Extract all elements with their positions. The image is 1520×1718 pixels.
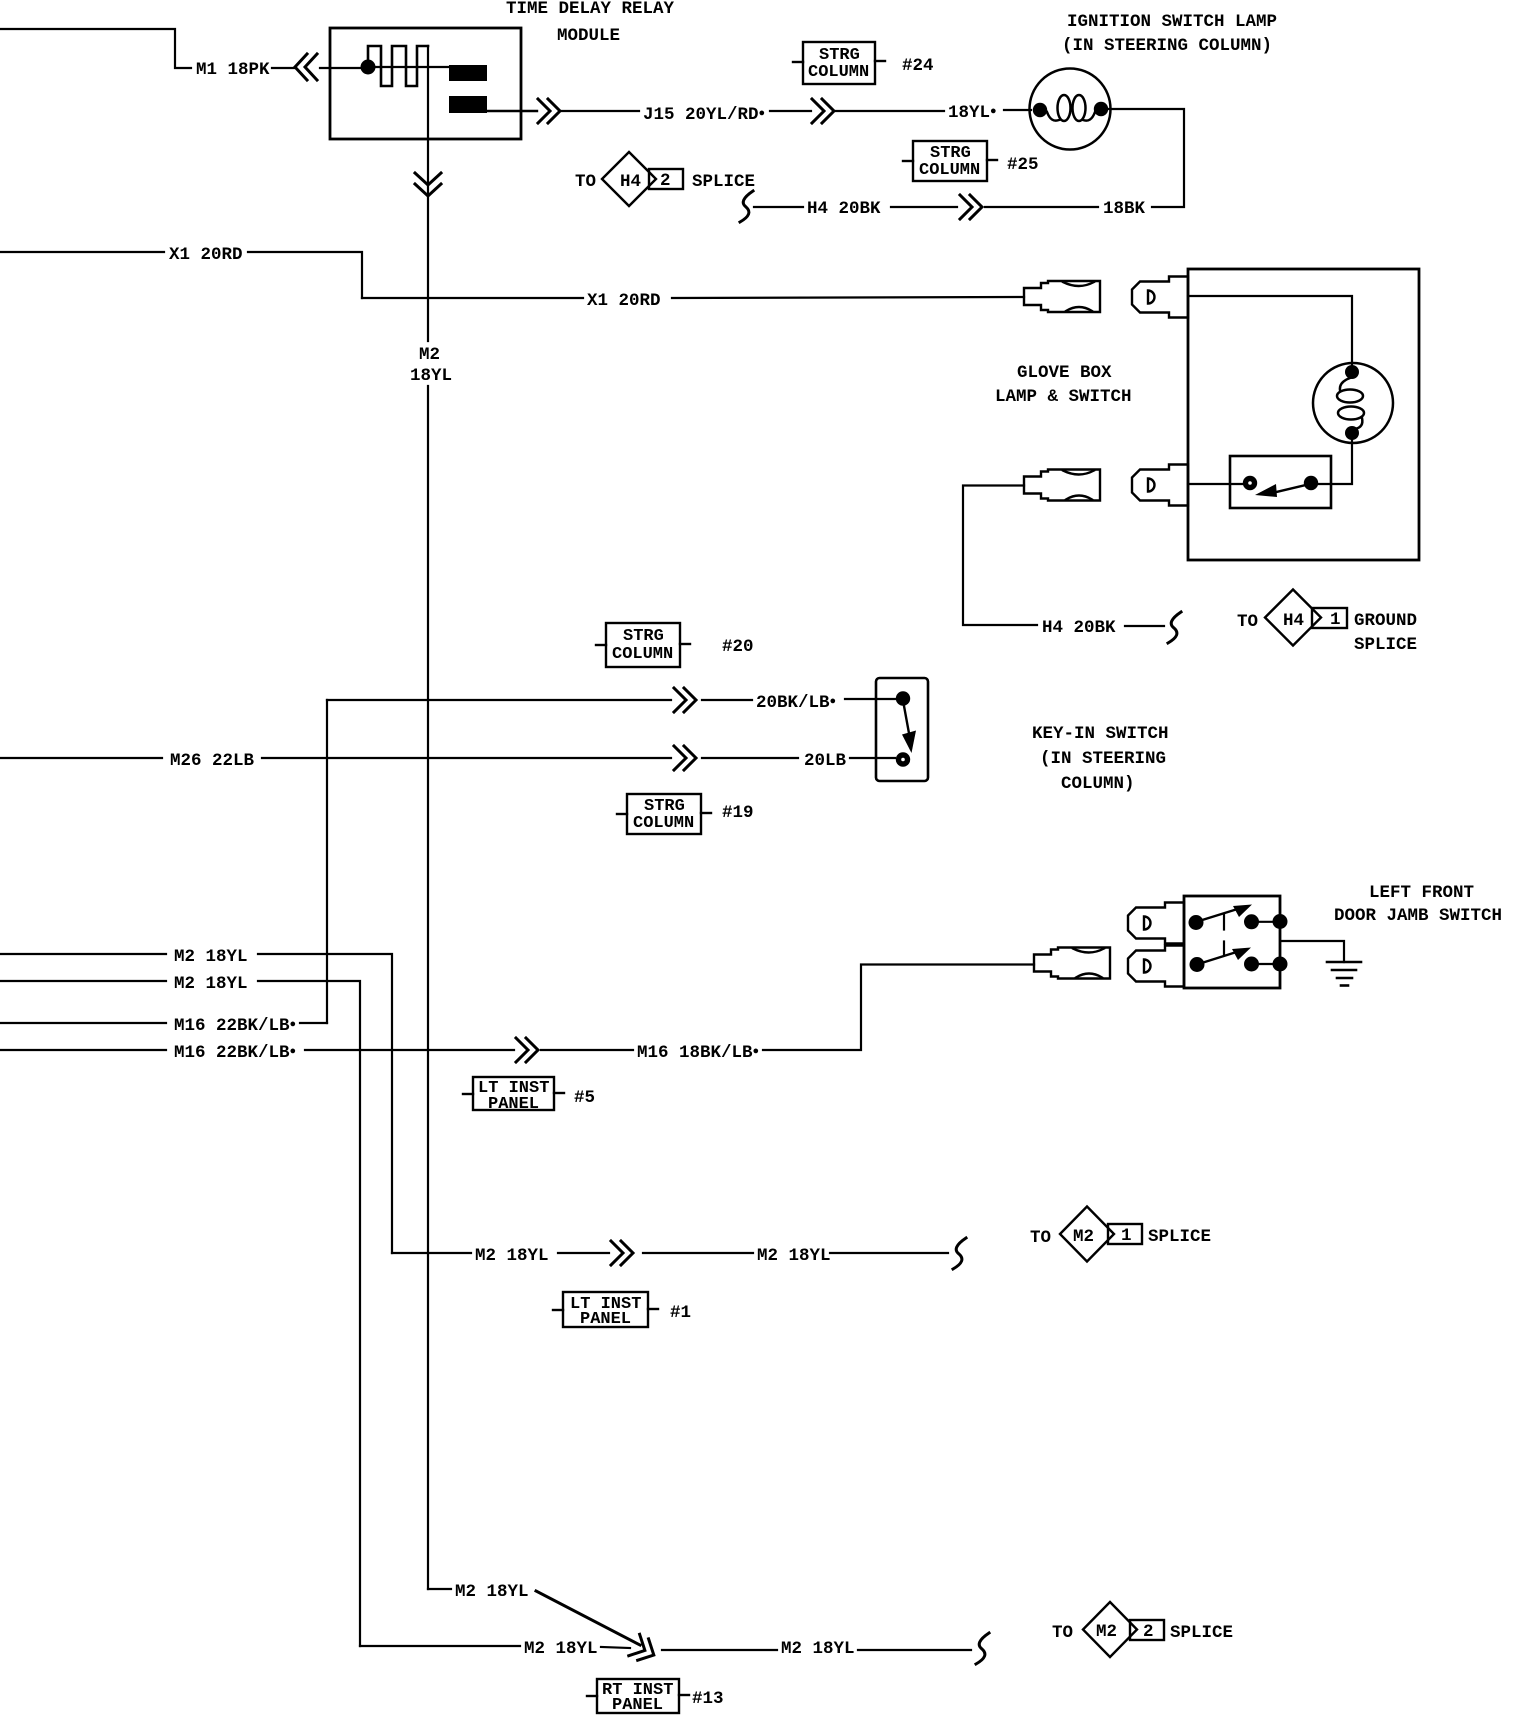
switch blade with arrow <box>1272 485 1306 493</box>
svg-text:20BK/LB●: 20BK/LB● <box>756 693 836 713</box>
svg-text:TO: TO <box>1030 1228 1051 1248</box>
connector chevron row G <box>611 1241 633 1265</box>
door switch blade top arrow <box>1199 910 1236 922</box>
switch contact dot right <box>1304 476 1318 490</box>
wire J15 output <box>487 110 537 112</box>
svg-text:H4: H4 <box>1283 611 1304 631</box>
male connector X1 <box>1024 281 1100 312</box>
svg-text:M2 18YL: M2 18YL <box>174 947 248 967</box>
svg-text:IGNITION SWITCH LAMP: IGNITION SWITCH LAMP <box>1067 12 1277 32</box>
svg-text:M2 18YL: M2 18YL <box>475 1246 549 1266</box>
svg-text:M16 22BK/LB●: M16 22BK/LB● <box>174 1016 296 1036</box>
svg-text:#20: #20 <box>722 637 754 657</box>
male connector glove switch <box>1024 470 1100 501</box>
STRG COLUMN ref box 25 <box>903 141 997 181</box>
svg-text:M1 18PK: M1 18PK <box>196 60 270 80</box>
door switch gang link <box>1223 914 1225 930</box>
svg-text:SPLICE: SPLICE <box>692 172 755 192</box>
svg-text:COLUMN: COLUMN <box>808 63 869 82</box>
wire break squiggle row G <box>953 1238 966 1269</box>
wire to glove lamp <box>1188 296 1352 366</box>
female connector glove bottom <box>1132 465 1188 506</box>
svg-text:COLUMN: COLUMN <box>633 814 694 833</box>
ground symbol <box>1327 962 1361 986</box>
svg-text:M2 18YL: M2 18YL <box>174 974 248 994</box>
wire break squiggle row I <box>976 1633 989 1664</box>
lamp terminal dot left <box>1033 103 1047 117</box>
wire switch to connector <box>1188 483 1243 485</box>
key-in contact dot top <box>896 691 910 705</box>
svg-text:M26 22LB: M26 22LB <box>170 751 255 771</box>
svg-text:M2 18YL: M2 18YL <box>781 1639 855 1659</box>
connector chevron M16 <box>516 1038 538 1062</box>
svg-text:SPLICE: SPLICE <box>1170 1623 1233 1643</box>
svg-text:(IN STEERING: (IN STEERING <box>1040 749 1166 769</box>
connector chevron 18YL <box>812 99 834 123</box>
wire 20BK/LB row <box>327 699 895 700</box>
svg-text:X1 20RD: X1 20RD <box>169 245 243 265</box>
wire break squiggle glove H4 <box>1168 612 1181 643</box>
svg-text:#13: #13 <box>692 1689 724 1709</box>
connector chevron 20BK/LB <box>674 688 696 712</box>
svg-text:#25: #25 <box>1007 155 1039 175</box>
svg-text:M2 18YL: M2 18YL <box>757 1246 831 1266</box>
connector chevron J15 <box>538 99 560 123</box>
glove box outline <box>1188 269 1419 560</box>
wire M2 18YL main vertical <box>427 46 429 1589</box>
wire M2 18YL row G <box>392 1252 948 1254</box>
svg-text:(IN STEERING COLUMN): (IN STEERING COLUMN) <box>1062 36 1272 56</box>
svg-text:M2 18YL: M2 18YL <box>455 1582 529 1602</box>
svg-text:COLUMN): COLUMN) <box>1061 774 1135 794</box>
svg-text:1: 1 <box>1330 610 1341 630</box>
svg-text:LAMP & SWITCH: LAMP & SWITCH <box>995 387 1132 407</box>
svg-text:M2 18YL: M2 18YL <box>524 1639 598 1659</box>
svg-text:M2: M2 <box>1096 1622 1117 1642</box>
connector chevron M2 down <box>415 173 441 196</box>
door switch dot right bottom <box>1273 957 1288 972</box>
svg-text:18BK: 18BK <box>1103 199 1146 219</box>
svg-text:M2: M2 <box>1073 1227 1094 1247</box>
wire M16 22BK/LB row D <box>0 965 1034 1051</box>
wire M26 22LB row <box>0 757 895 759</box>
wire M16 22BK/LB row C <box>0 1022 327 1024</box>
svg-text:2: 2 <box>660 171 671 191</box>
svg-text:KEY-IN SWITCH: KEY-IN SWITCH <box>1032 724 1169 744</box>
wire break squiggle H4 <box>740 191 753 222</box>
wire glove lamp to switch <box>1317 440 1352 484</box>
svg-text:H4: H4 <box>620 172 641 192</box>
door switch blade bottom arrow <box>1200 953 1235 964</box>
RT INST PANEL ref box 13 <box>587 1679 689 1713</box>
connector chevron M1 <box>295 54 317 80</box>
glove box lamp <box>1313 363 1393 443</box>
svg-text:#5: #5 <box>574 1088 595 1108</box>
wire M2 18YL row I <box>360 1646 971 1650</box>
male connector door jamb <box>1034 948 1110 979</box>
wire to 18YL label <box>836 110 944 112</box>
wire H4 label to break <box>754 206 803 208</box>
svg-text:#1: #1 <box>670 1303 691 1323</box>
LT INST PANEL ref box 1 <box>553 1292 658 1327</box>
STRG COLUMN ref box 19 <box>617 794 711 834</box>
wire to J15 label <box>562 110 639 112</box>
wire 18YL to lamp <box>1004 109 1031 111</box>
door switch dot mid top <box>1244 914 1259 929</box>
svg-text:2: 2 <box>1143 1622 1154 1642</box>
svg-text:TO: TO <box>1052 1623 1073 1643</box>
wire diagonal row H <box>536 1591 640 1645</box>
connector chevron 20LB <box>674 746 696 770</box>
door switch dot left bottom <box>1190 957 1205 972</box>
key-in switch S2 <box>876 678 928 781</box>
ignition switch lamp <box>1030 69 1111 150</box>
relay contact bar 1 <box>449 65 487 81</box>
svg-text:M16 18BK/LB●: M16 18BK/LB● <box>637 1043 759 1063</box>
svg-text:PANEL: PANEL <box>488 1095 539 1114</box>
resistor element (square wave) <box>368 46 428 86</box>
door switch dot left top <box>1189 915 1204 930</box>
svg-text:#19: #19 <box>722 803 754 823</box>
svg-text:GROUND: GROUND <box>1354 611 1417 631</box>
door jamb switch S3 <box>1184 896 1280 988</box>
svg-text:18YL: 18YL <box>410 366 452 386</box>
wire vertical link to M16 <box>326 700 328 1023</box>
junction dot module input <box>361 60 376 75</box>
STRG COLUMN ref box 24 <box>793 42 885 84</box>
key-in contact dot bottom <box>896 752 910 766</box>
svg-text:X1 20RD: X1 20RD <box>587 291 661 311</box>
lamp terminal dot right <box>1094 102 1108 116</box>
connector chevron row I <box>629 1634 659 1665</box>
wire M2 18YL row H elbow <box>428 1588 451 1590</box>
wire M2 18YL row A <box>0 954 392 1253</box>
connector chevron H4 row <box>960 195 982 219</box>
glove lamp dot top <box>1345 365 1359 379</box>
wire H4 20BK from glove switch <box>963 486 1037 626</box>
glove lamp dot bottom <box>1345 426 1359 440</box>
svg-text:M2: M2 <box>419 345 440 365</box>
svg-text:LEFT FRONT: LEFT FRONT <box>1369 883 1474 903</box>
svg-text:GLOVE BOX: GLOVE BOX <box>1017 363 1112 383</box>
wire M2 18YL row B <box>0 981 360 1646</box>
svg-text:18YL●: 18YL● <box>948 103 997 123</box>
svg-text:TO: TO <box>575 172 596 192</box>
svg-text:SPLICE: SPLICE <box>1354 635 1417 655</box>
svg-text:#24: #24 <box>902 56 934 76</box>
wire M1 18PK feed <box>0 29 361 68</box>
door switch dot right top <box>1273 914 1288 929</box>
LT INST PANEL ref box 5 <box>463 1077 564 1110</box>
wire to ground <box>1281 941 1344 962</box>
female connector glove top <box>1132 277 1188 318</box>
svg-text:COLUMN: COLUMN <box>612 645 673 664</box>
female connector door top <box>1128 903 1184 944</box>
relay contact bar 2 <box>449 96 487 113</box>
wire J15 to chevron <box>770 110 811 112</box>
svg-text:H4 20BK: H4 20BK <box>807 199 881 219</box>
svg-text:J15 20YL/RD●: J15 20YL/RD● <box>643 105 765 125</box>
wire X1 20RD from left <box>0 252 362 298</box>
wire X1 20RD second run <box>362 297 1024 298</box>
svg-text:PANEL: PANEL <box>612 1696 663 1715</box>
switch contact dot left <box>1243 476 1257 490</box>
svg-text:COLUMN: COLUMN <box>919 161 980 180</box>
time delay relay module U1 <box>330 28 521 139</box>
svg-text:M16 22BK/LB●: M16 22BK/LB● <box>174 1043 296 1063</box>
svg-text:1: 1 <box>1121 1226 1132 1246</box>
svg-text:H4 20BK: H4 20BK <box>1042 618 1116 638</box>
wire chevron to H4 20BK label <box>891 206 957 208</box>
svg-text:PANEL: PANEL <box>580 1310 631 1329</box>
wire lamp to 18BK corner <box>1108 109 1184 207</box>
key-in switch blade arrow <box>904 706 910 736</box>
svg-text:STRG: STRG <box>623 627 664 646</box>
svg-text:MODULE: MODULE <box>557 26 620 46</box>
glove box switch S1 <box>1230 456 1331 508</box>
svg-text:DOOR JAMB SWITCH: DOOR JAMB SWITCH <box>1334 906 1502 926</box>
wire 18BK to chevron <box>985 206 1098 208</box>
wire dot links <box>1259 921 1274 923</box>
wire H4 label to break <box>1125 625 1164 627</box>
svg-text:20LB: 20LB <box>804 751 847 771</box>
svg-text:SPLICE: SPLICE <box>1148 1227 1211 1247</box>
wire through resistor <box>376 66 449 68</box>
svg-text:TO: TO <box>1237 612 1258 632</box>
svg-text:TIME DELAY RELAY: TIME DELAY RELAY <box>506 0 675 19</box>
STRG COLUMN ref box 20 <box>596 623 690 667</box>
female connector door bottom <box>1128 946 1184 987</box>
door switch dot mid bottom <box>1244 957 1259 972</box>
